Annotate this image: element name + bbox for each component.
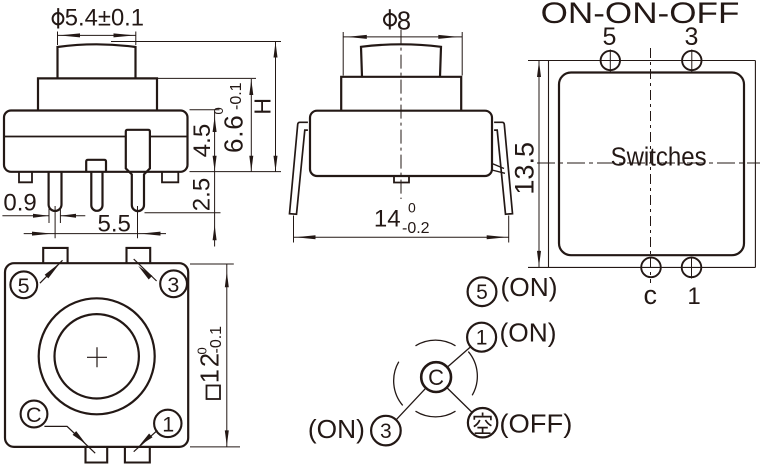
svg-text:(OFF): (OFF) — [499, 408, 572, 438]
svg-text:5: 5 — [603, 23, 617, 51]
svg-text:Switches: Switches — [611, 143, 707, 171]
svg-text:5.5: 5.5 — [98, 211, 131, 238]
svg-text:1: 1 — [162, 412, 174, 436]
svg-text:5: 5 — [476, 281, 488, 304]
svg-text:12: 12 — [197, 351, 225, 383]
svg-text:(ON): (ON) — [308, 414, 365, 444]
svg-text:0.9: 0.9 — [3, 190, 36, 217]
svg-text:8: 8 — [397, 7, 411, 35]
svg-text:14: 14 — [374, 206, 401, 233]
svg-text:H: H — [249, 98, 275, 115]
svg-text:-0.2: -0.2 — [402, 220, 430, 237]
svg-text:3: 3 — [685, 23, 699, 51]
svg-text:5: 5 — [18, 274, 30, 298]
svg-text:0: 0 — [211, 107, 226, 114]
svg-text:3: 3 — [167, 273, 179, 297]
svg-text:C: C — [428, 365, 444, 390]
svg-text:5.4±0.1: 5.4±0.1 — [65, 4, 144, 31]
svg-text:-0.1: -0.1 — [208, 326, 225, 354]
svg-text:3: 3 — [380, 420, 392, 443]
svg-text:2.5: 2.5 — [189, 178, 216, 211]
svg-text:c: c — [644, 280, 658, 310]
svg-text:ON-ON-OFF: ON-ON-OFF — [541, 0, 740, 30]
svg-text:-0.1: -0.1 — [228, 82, 245, 110]
svg-text:(ON): (ON) — [501, 272, 558, 302]
svg-text:(ON): (ON) — [500, 317, 557, 347]
svg-text:0: 0 — [408, 200, 416, 216]
svg-text:4.5: 4.5 — [189, 124, 216, 157]
svg-text:1: 1 — [687, 283, 700, 310]
svg-text:6.6: 6.6 — [219, 114, 249, 153]
svg-text:1: 1 — [476, 327, 488, 350]
svg-text:13.5: 13.5 — [510, 142, 540, 195]
svg-text:C: C — [26, 403, 42, 427]
